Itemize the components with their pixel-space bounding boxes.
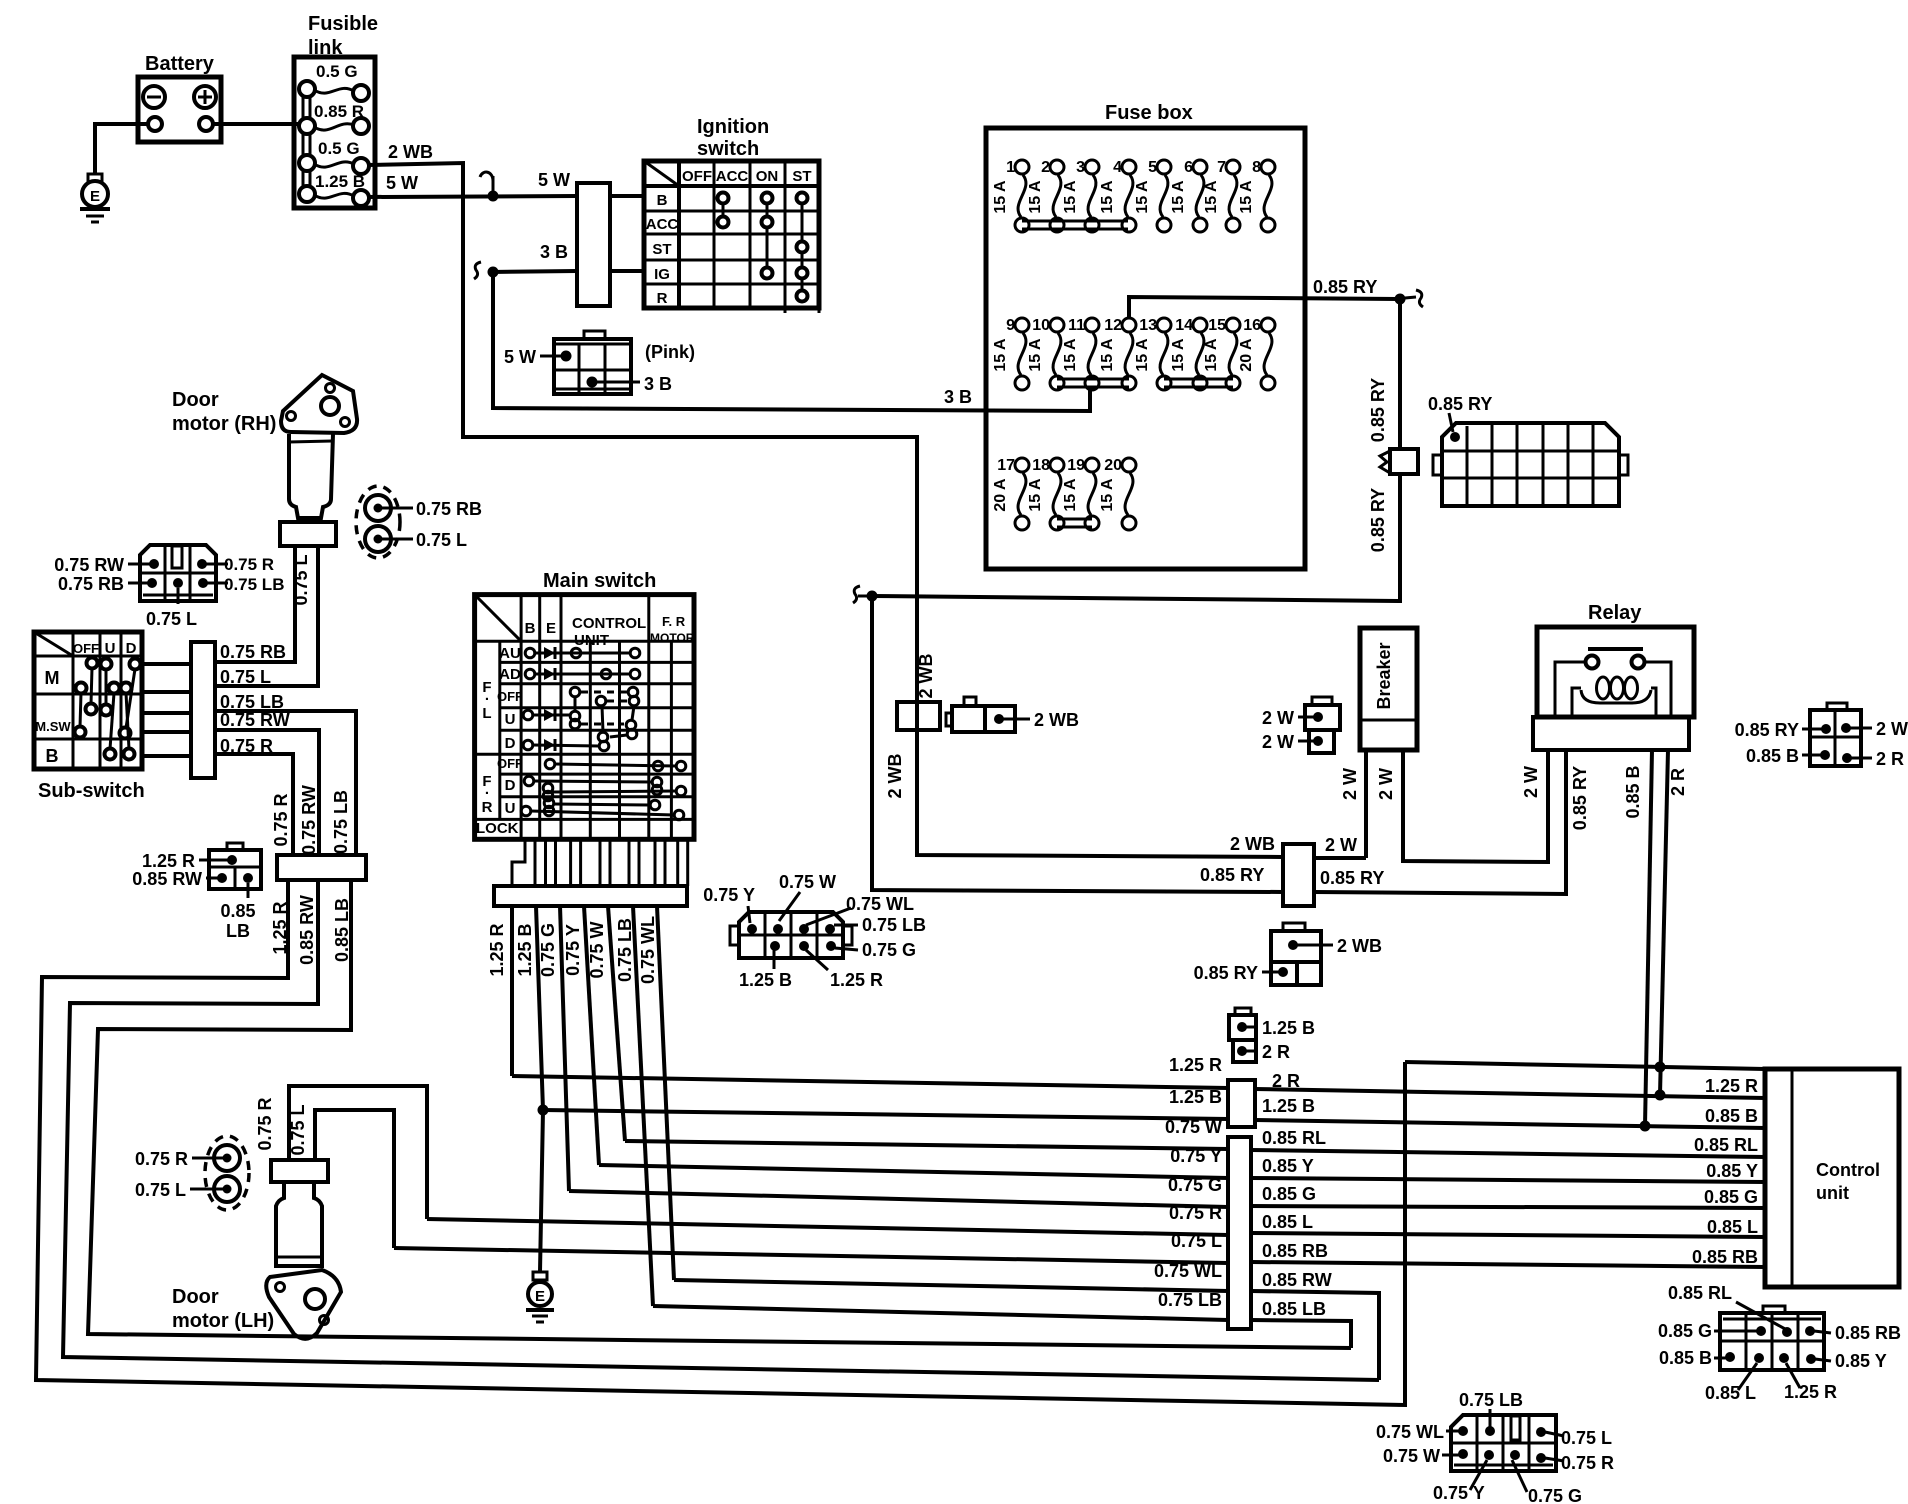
svg-text:0.75 RB: 0.75 RB [58,574,124,594]
svg-text:2 WB: 2 WB [1337,936,1382,956]
fuse 7 (15A) [1203,159,1240,232]
wire 0.75RW down [215,710,319,855]
svg-text:0.75 RW: 0.75 RW [220,710,290,730]
relay pin 0.85B wire [1623,750,1652,1132]
fuse 10 (15A) [1027,317,1064,390]
svg-text:0.85 RL: 0.85 RL [1694,1135,1758,1155]
svg-text:U: U [105,640,116,657]
connector 4pin 0.85RY/0.85B/2W/2R [1735,703,1908,769]
svg-text:0.75 L: 0.75 L [1561,1428,1612,1448]
connector bar (0.75 wires) [1228,1137,1251,1329]
fusible link fuse 0.5G (top) [299,62,369,101]
main switch contacts F.R OFF [545,759,686,771]
svg-text:15 A: 15 A [1170,180,1187,214]
svg-text:0.75 R: 0.75 R [1561,1453,1614,1473]
wire 0.75R from door motor LH [255,1086,427,1219]
svg-text:Fuse box: Fuse box [1105,102,1193,124]
svg-text:0.85 RY: 0.85 RY [1194,963,1258,983]
svg-text:15 A: 15 A [1099,478,1116,512]
svg-text:0.75 L: 0.75 L [146,609,197,629]
svg-text:0.75 W: 0.75 W [587,921,607,978]
svg-text:E: E [90,188,100,205]
ground E (main switch) [526,1272,554,1322]
multi-pin connector 0.85RY (grid) [1428,394,1628,506]
svg-text:OFF: OFF [682,168,712,185]
fuse 4 (15A) [1099,159,1136,232]
svg-text:ST: ST [792,168,811,185]
fuse 6 (15A) [1170,159,1207,232]
svg-text:2 R: 2 R [1876,749,1904,769]
wire 0.75W / 0.85RL [625,1117,1765,1157]
svg-text:15 A: 15 A [1062,338,1079,372]
wire 0.75 W from main switch [587,906,625,1141]
fuse 16 (20A) [1238,317,1275,390]
svg-text:0.75 Y: 0.75 Y [1433,1483,1485,1503]
fuse 13 (15A) [1134,317,1171,390]
connector (Pink) [504,331,695,394]
svg-text:ST: ST [652,241,671,258]
connector bar (1.25R/1.25B) [1228,1080,1255,1127]
svg-text:0.85 G: 0.85 G [1262,1184,1316,1204]
fusible link fuse 0.5G (third) [299,139,369,174]
svg-text:0.85 Y: 0.85 Y [1262,1156,1314,1176]
svg-text:L: L [482,705,491,722]
svg-text:13: 13 [1139,317,1157,334]
battery [138,53,221,142]
ignition switch contacts ACC column [718,193,729,228]
svg-text:D: D [505,777,516,794]
wire 0.75R down [215,736,293,855]
svg-text:0.75 L: 0.75 L [135,1180,186,1200]
svg-text:switch: switch [697,138,759,160]
svg-text:Breaker: Breaker [1374,642,1394,709]
relay pin 2W [1521,766,1541,798]
svg-text:11: 11 [1068,317,1085,334]
svg-text:B: B [46,746,59,766]
wire 3B to ignition switch and fuse box [490,242,1090,411]
main switch contacts F.L U [523,709,637,739]
svg-text:(Pink): (Pink) [645,342,695,362]
ignition switch contacts ST column [797,193,808,302]
fuse 8 (15A) [1238,159,1275,232]
sub-switch connector bar [142,642,215,778]
svg-text:0.75 WL: 0.75 WL [1154,1261,1222,1281]
fuse 15 (15A) [1203,317,1240,390]
svg-text:0.75 LB: 0.75 LB [1459,1390,1523,1410]
svg-text:OFF: OFF [497,689,523,704]
svg-text:2 W: 2 W [1325,835,1357,855]
wire 0.85RY from fuse 12 [1129,277,1400,317]
svg-text:0.85 RY: 0.85 RY [1428,394,1492,414]
svg-text:0.85 RW: 0.85 RW [132,869,202,889]
svg-text:ACC: ACC [716,168,749,185]
svg-text:12: 12 [1104,317,1122,334]
svg-text:0.85 RY: 0.85 RY [1313,277,1377,297]
control unit [1765,1069,1899,1287]
fuse bus link [1057,379,1129,387]
svg-text:1.25 B: 1.25 B [315,172,365,191]
ignition switch table [644,116,819,313]
svg-text:0.75 RB: 0.75 RB [220,642,286,662]
svg-text:ON: ON [756,168,779,185]
connector 1.25R/0.85RW/0.85LB [132,843,261,941]
junction 5W branch [480,172,499,201]
svg-text:unit: unit [1816,1183,1849,1203]
svg-text:AD: AD [499,666,521,683]
relay pin 2R wire [1655,750,1689,1101]
svg-text:15 A: 15 A [992,180,1009,214]
svg-text:0.75 W: 0.75 W [1165,1117,1222,1137]
svg-text:E: E [546,620,556,637]
svg-text:LB: LB [226,921,250,941]
svg-text:Door: Door [172,389,219,411]
svg-text:0.75 R: 0.75 R [224,555,274,574]
connector 2W/2W (2 pin) [1262,697,1340,753]
svg-text:16: 16 [1243,317,1261,334]
svg-text:0.75 W: 0.75 W [1383,1446,1440,1466]
wire 0.85LB loop [88,880,1351,1348]
svg-text:0.85 L: 0.85 L [1262,1212,1313,1232]
svg-text:Ignition: Ignition [697,116,769,138]
svg-text:5 W: 5 W [538,170,570,190]
svg-text:0.85 Y: 0.85 Y [1835,1351,1887,1371]
fuse 19 (15A) [1062,457,1099,530]
wire 2W breaker left pin [1340,750,1366,858]
svg-text:0.75 Y: 0.75 Y [1170,1146,1222,1166]
svg-text:17: 17 [997,457,1015,474]
svg-text:15 A: 15 A [1027,180,1044,214]
svg-text:1.25 R: 1.25 R [830,970,883,990]
svg-text:3 B: 3 B [540,242,568,262]
svg-text:0.75 R: 0.75 R [1169,1203,1222,1223]
fuse 11 (15A) [1062,317,1099,390]
relay pin 0.85RY [1570,766,1590,830]
wire 2R to control unit [1405,1062,1765,1069]
svg-text:10: 10 [1032,317,1050,334]
svg-text:0.75 R: 0.75 R [255,1097,275,1150]
wire 0.75 WL from main switch [638,906,674,1280]
svg-text:0.85 L: 0.85 L [1705,1383,1756,1403]
wire 0.75L from door motor LH [288,1104,394,1248]
svg-text:D: D [505,735,516,752]
relay [1533,602,1694,750]
svg-text:0.75 W: 0.75 W [779,872,836,892]
connector 1.25B/2R [1229,1008,1315,1062]
wire 0.75RB sub-switch to door motor RH [215,546,295,662]
ground E (battery) [80,174,110,222]
wire battery positive to fusible link [213,122,303,126]
svg-text:0.75 WL: 0.75 WL [638,916,658,984]
svg-text:Control: Control [1816,1160,1880,1180]
svg-text:0.75 G: 0.75 G [1528,1486,1582,1504]
svg-text:0.75 RW: 0.75 RW [299,785,319,855]
wire 0.85RY vertical from junction [1368,299,1400,449]
connector bar (ignition switch) [577,183,644,306]
svg-text:2 W: 2 W [1376,768,1396,800]
fusible link fuse 1.25B (bottom) [299,172,369,206]
inline connector on 0.85RY [1380,449,1418,474]
main switch contacts F.R U [521,798,684,820]
svg-text:2 WB: 2 WB [388,142,433,162]
svg-text:F. R: F. R [662,614,686,629]
fuse 5 (15A) [1134,159,1171,232]
svg-text:E: E [535,1288,545,1305]
svg-text:2 W: 2 W [1876,719,1908,739]
svg-text:0.85 RY: 0.85 RY [1200,865,1264,885]
fuse 12 (15A) [1099,317,1136,390]
svg-text:20 A: 20 A [1238,338,1255,372]
svg-text:0.75 LB: 0.75 LB [862,915,926,935]
svg-text:1.25 R: 1.25 R [1169,1055,1222,1075]
svg-text:20: 20 [1104,457,1122,474]
svg-text:15 A: 15 A [1027,338,1044,372]
svg-text:5 W: 5 W [386,173,418,193]
svg-text:ACC: ACC [646,216,679,233]
svg-text:0.75 LB: 0.75 LB [1158,1290,1222,1310]
svg-text:M: M [45,668,60,688]
connector 8pin (control unit harness) [1658,1283,1901,1403]
svg-text:0.85 B: 0.85 B [1705,1106,1758,1126]
svg-text:0.85 LB: 0.85 LB [1262,1299,1326,1319]
svg-text:B: B [525,620,536,637]
svg-text:Fusible: Fusible [308,13,378,35]
svg-text:15 A: 15 A [1238,180,1255,214]
svg-text:2 WB: 2 WB [885,753,905,798]
svg-text:2 W: 2 W [1340,768,1360,800]
svg-text:2 W: 2 W [1521,766,1541,798]
svg-text:Door: Door [172,1286,219,1308]
svg-text:19: 19 [1067,457,1085,474]
svg-text:OFF: OFF [497,756,523,771]
svg-text:3 B: 3 B [644,374,672,394]
svg-text:15 A: 15 A [1099,338,1116,372]
svg-text:15 A: 15 A [992,338,1009,372]
svg-text:0.85 RY: 0.85 RY [1735,720,1799,740]
svg-text:IG: IG [654,266,670,283]
svg-text:0.85 RB: 0.85 RB [1835,1323,1901,1343]
svg-text:20 A: 20 A [992,478,1009,512]
svg-text:0.75 G: 0.75 G [862,940,916,960]
fuse 2 (15A) [1027,159,1064,232]
connector 2WB (floating pair) [946,697,1079,732]
svg-text:0.85 RY: 0.85 RY [1570,766,1590,830]
svg-text:M.SW: M.SW [35,719,71,734]
svg-text:15 A: 15 A [1203,180,1220,214]
svg-text:1.25 R: 1.25 R [1784,1382,1837,1402]
svg-text:1.25 B: 1.25 B [515,923,535,976]
relay coil [1572,677,1656,717]
svg-text:3 B: 3 B [944,387,972,407]
svg-text:0.75 L: 0.75 L [416,530,467,550]
fuse 14 (15A) [1170,317,1207,390]
svg-text:0.75 LB: 0.75 LB [224,575,284,594]
fusible link box [294,13,378,208]
svg-text:0.75 R: 0.75 R [135,1149,188,1169]
svg-text:15 A: 15 A [1170,338,1187,372]
main switch connector bar [494,886,687,906]
svg-text:Sub-switch: Sub-switch [38,780,145,802]
wire 0.85RW loop [63,880,1379,1380]
fuse 20 (15A) [1099,457,1136,530]
wire battery negative to ground [95,124,148,174]
wire 0.75 LB from main switch [615,906,653,1306]
connector 2pin round (RH) [356,486,482,558]
wire 1.25R / 2R [512,1055,1765,1098]
svg-text:0.85 RY: 0.85 RY [1320,868,1384,888]
wire 0.75LB down [215,692,356,855]
svg-text:15 A: 15 A [1027,478,1044,512]
wire 0.75 Y from main switch [563,906,599,1165]
svg-text:0.85 L: 0.85 L [1707,1217,1758,1237]
svg-text:0.75 R: 0.75 R [271,793,291,846]
svg-text:.: . [485,687,489,704]
svg-text:0.85 RB: 0.85 RB [1262,1241,1328,1261]
svg-text:Relay: Relay [1588,602,1642,624]
svg-text:0.85 RY: 0.85 RY [1368,378,1388,442]
svg-text:motor (LH): motor (LH) [172,1310,274,1332]
svg-text:1.25 R: 1.25 R [487,923,507,976]
wire 0.75WL / 0.85RW [674,1261,1379,1380]
wire 0.75R / 0.85L [427,1203,1765,1237]
svg-text:U: U [505,711,516,728]
connector 2pin round (LH) [135,1136,249,1210]
sub-switch contacts [75,658,141,760]
wire 1.25B / 0.85B [543,1087,1765,1128]
svg-text:0.85 G: 0.85 G [1704,1187,1758,1207]
svg-text:14: 14 [1175,317,1193,334]
main switch output channels [512,839,688,886]
fuse box [986,102,1305,569]
svg-text:motor (RH): motor (RH) [172,413,276,435]
svg-text:2 W: 2 W [1262,732,1294,752]
svg-text:UNIT: UNIT [574,632,609,649]
svg-text:0.75 Y: 0.75 Y [703,885,755,905]
svg-text:0.75 G: 0.75 G [1168,1175,1222,1195]
fuse 17 (20A) [992,457,1029,530]
wire 0.85RY down to junction row [872,474,1400,601]
svg-text:0.85 RL: 0.85 RL [1262,1128,1326,1148]
svg-text:0.75 RW: 0.75 RW [54,555,124,575]
svg-text:2 WB: 2 WB [1034,710,1079,730]
svg-text:15: 15 [1208,317,1226,334]
fuse bus link [1164,379,1233,387]
fuse 1 (15A) [992,159,1029,232]
svg-text:0.75 WL: 0.75 WL [846,894,914,914]
svg-text:B: B [657,192,668,209]
wire 0.75 G from main switch [538,906,569,1191]
connector 8pin (bottom center) [1376,1390,1614,1504]
svg-text:0.85 RL: 0.85 RL [1668,1283,1732,1303]
svg-text:0.85 RW: 0.85 RW [1262,1270,1332,1290]
svg-text:0.75 Y: 0.75 Y [563,924,583,976]
wire 1.25 B from main switch [515,906,549,1272]
fuse bus link [1022,221,1128,229]
svg-text:0.85 B: 0.85 B [1623,765,1643,818]
lower connector bar [277,855,366,880]
junction 0.85RY [1395,290,1424,307]
svg-text:2 WB: 2 WB [1230,834,1275,854]
svg-text:2 R: 2 R [1668,768,1688,796]
wire 0.85RY to connector bar [872,596,1283,892]
wire 0.75L / 0.85RB [394,1231,1765,1267]
connector 0.85RY/2WB [1194,923,1382,985]
svg-text:MOTOR: MOTOR [650,631,695,645]
wire 5W from fusible link to ignition switch [368,170,577,197]
svg-text:5 W: 5 W [504,347,536,367]
svg-text:0.85 G: 0.85 G [1658,1321,1712,1341]
svg-text:0.5 G: 0.5 G [318,139,360,158]
svg-text:Main switch: Main switch [543,570,656,592]
svg-text:18: 18 [1032,457,1050,474]
svg-text:2 R: 2 R [1262,1042,1290,1062]
fuse 9 (15A) [992,317,1029,390]
connector bar 2WB/2W 0.85RY [1230,834,1384,906]
wire 1.25R loop to control unit 2R [36,880,1405,1405]
fuse 18 (15A) [1027,457,1064,530]
svg-text:U: U [505,800,516,817]
connector 6pin (sub-switch harness) [54,545,284,629]
main switch contacts F.R D [524,776,686,801]
svg-text:OFF: OFF [73,641,99,656]
svg-text:0.85 B: 0.85 B [1746,746,1799,766]
main switch contacts F.L AU [525,647,640,659]
svg-text:0.75 RB: 0.75 RB [416,499,482,519]
svg-text:1.25 B: 1.25 B [1169,1087,1222,1107]
svg-text:15 A: 15 A [1099,180,1116,214]
svg-text:0.85 RB: 0.85 RB [1692,1247,1758,1267]
junction 0.85RY mid [853,586,878,603]
main switch contacts F.L D [523,732,627,751]
svg-text:15 A: 15 A [1203,338,1220,372]
door motor (RH) [172,375,357,546]
svg-text:2 W: 2 W [1262,708,1294,728]
svg-text:0.75 G: 0.75 G [538,923,558,977]
svg-text:15 A: 15 A [1062,180,1079,214]
inline connector on 2WB vertical [885,653,940,798]
svg-text:1.25 B: 1.25 B [739,970,792,990]
main switch contacts F.L OFF [570,687,639,732]
main switch contacts F.L AD [525,668,640,680]
connector 8pin (main switch harness) [703,872,926,990]
fusible link fuse 0.85R [299,102,369,134]
wire 0.75G / 0.85G [569,1175,1765,1208]
svg-text:D: D [126,640,137,657]
junction 3B [474,262,499,279]
door motor (LH) [172,1160,341,1339]
svg-text:R: R [657,290,668,307]
wire 0.75LB / 0.85LB [653,1290,1351,1348]
wire 2W breaker right pin to relay [1376,750,1548,862]
svg-text:R: R [482,799,493,816]
wire 0.75L sub-switch to door motor RH [215,546,318,687]
wire 2WB from fusible link [368,142,1283,857]
svg-text:1.25 B: 1.25 B [1262,1018,1315,1038]
svg-text:0.75 L: 0.75 L [288,1104,308,1155]
svg-text:0.5 G: 0.5 G [316,62,358,81]
svg-text:0.75 WL: 0.75 WL [1376,1422,1444,1442]
svg-text:.: . [485,781,489,798]
svg-text:1.25 R: 1.25 R [1705,1076,1758,1096]
fuse bus link [1057,519,1092,527]
svg-text:0.85 RW: 0.85 RW [297,895,317,965]
svg-text:1.25 B: 1.25 B [1262,1096,1315,1116]
svg-text:CONTROL: CONTROL [572,615,646,632]
svg-text:0.85 Y: 0.85 Y [1706,1161,1758,1181]
svg-text:0.75 L: 0.75 L [1171,1231,1222,1251]
wire 0.85RY bar to relay [1314,750,1566,894]
svg-text:0.75 L: 0.75 L [291,554,311,605]
fuse 3 (15A) [1062,159,1099,232]
